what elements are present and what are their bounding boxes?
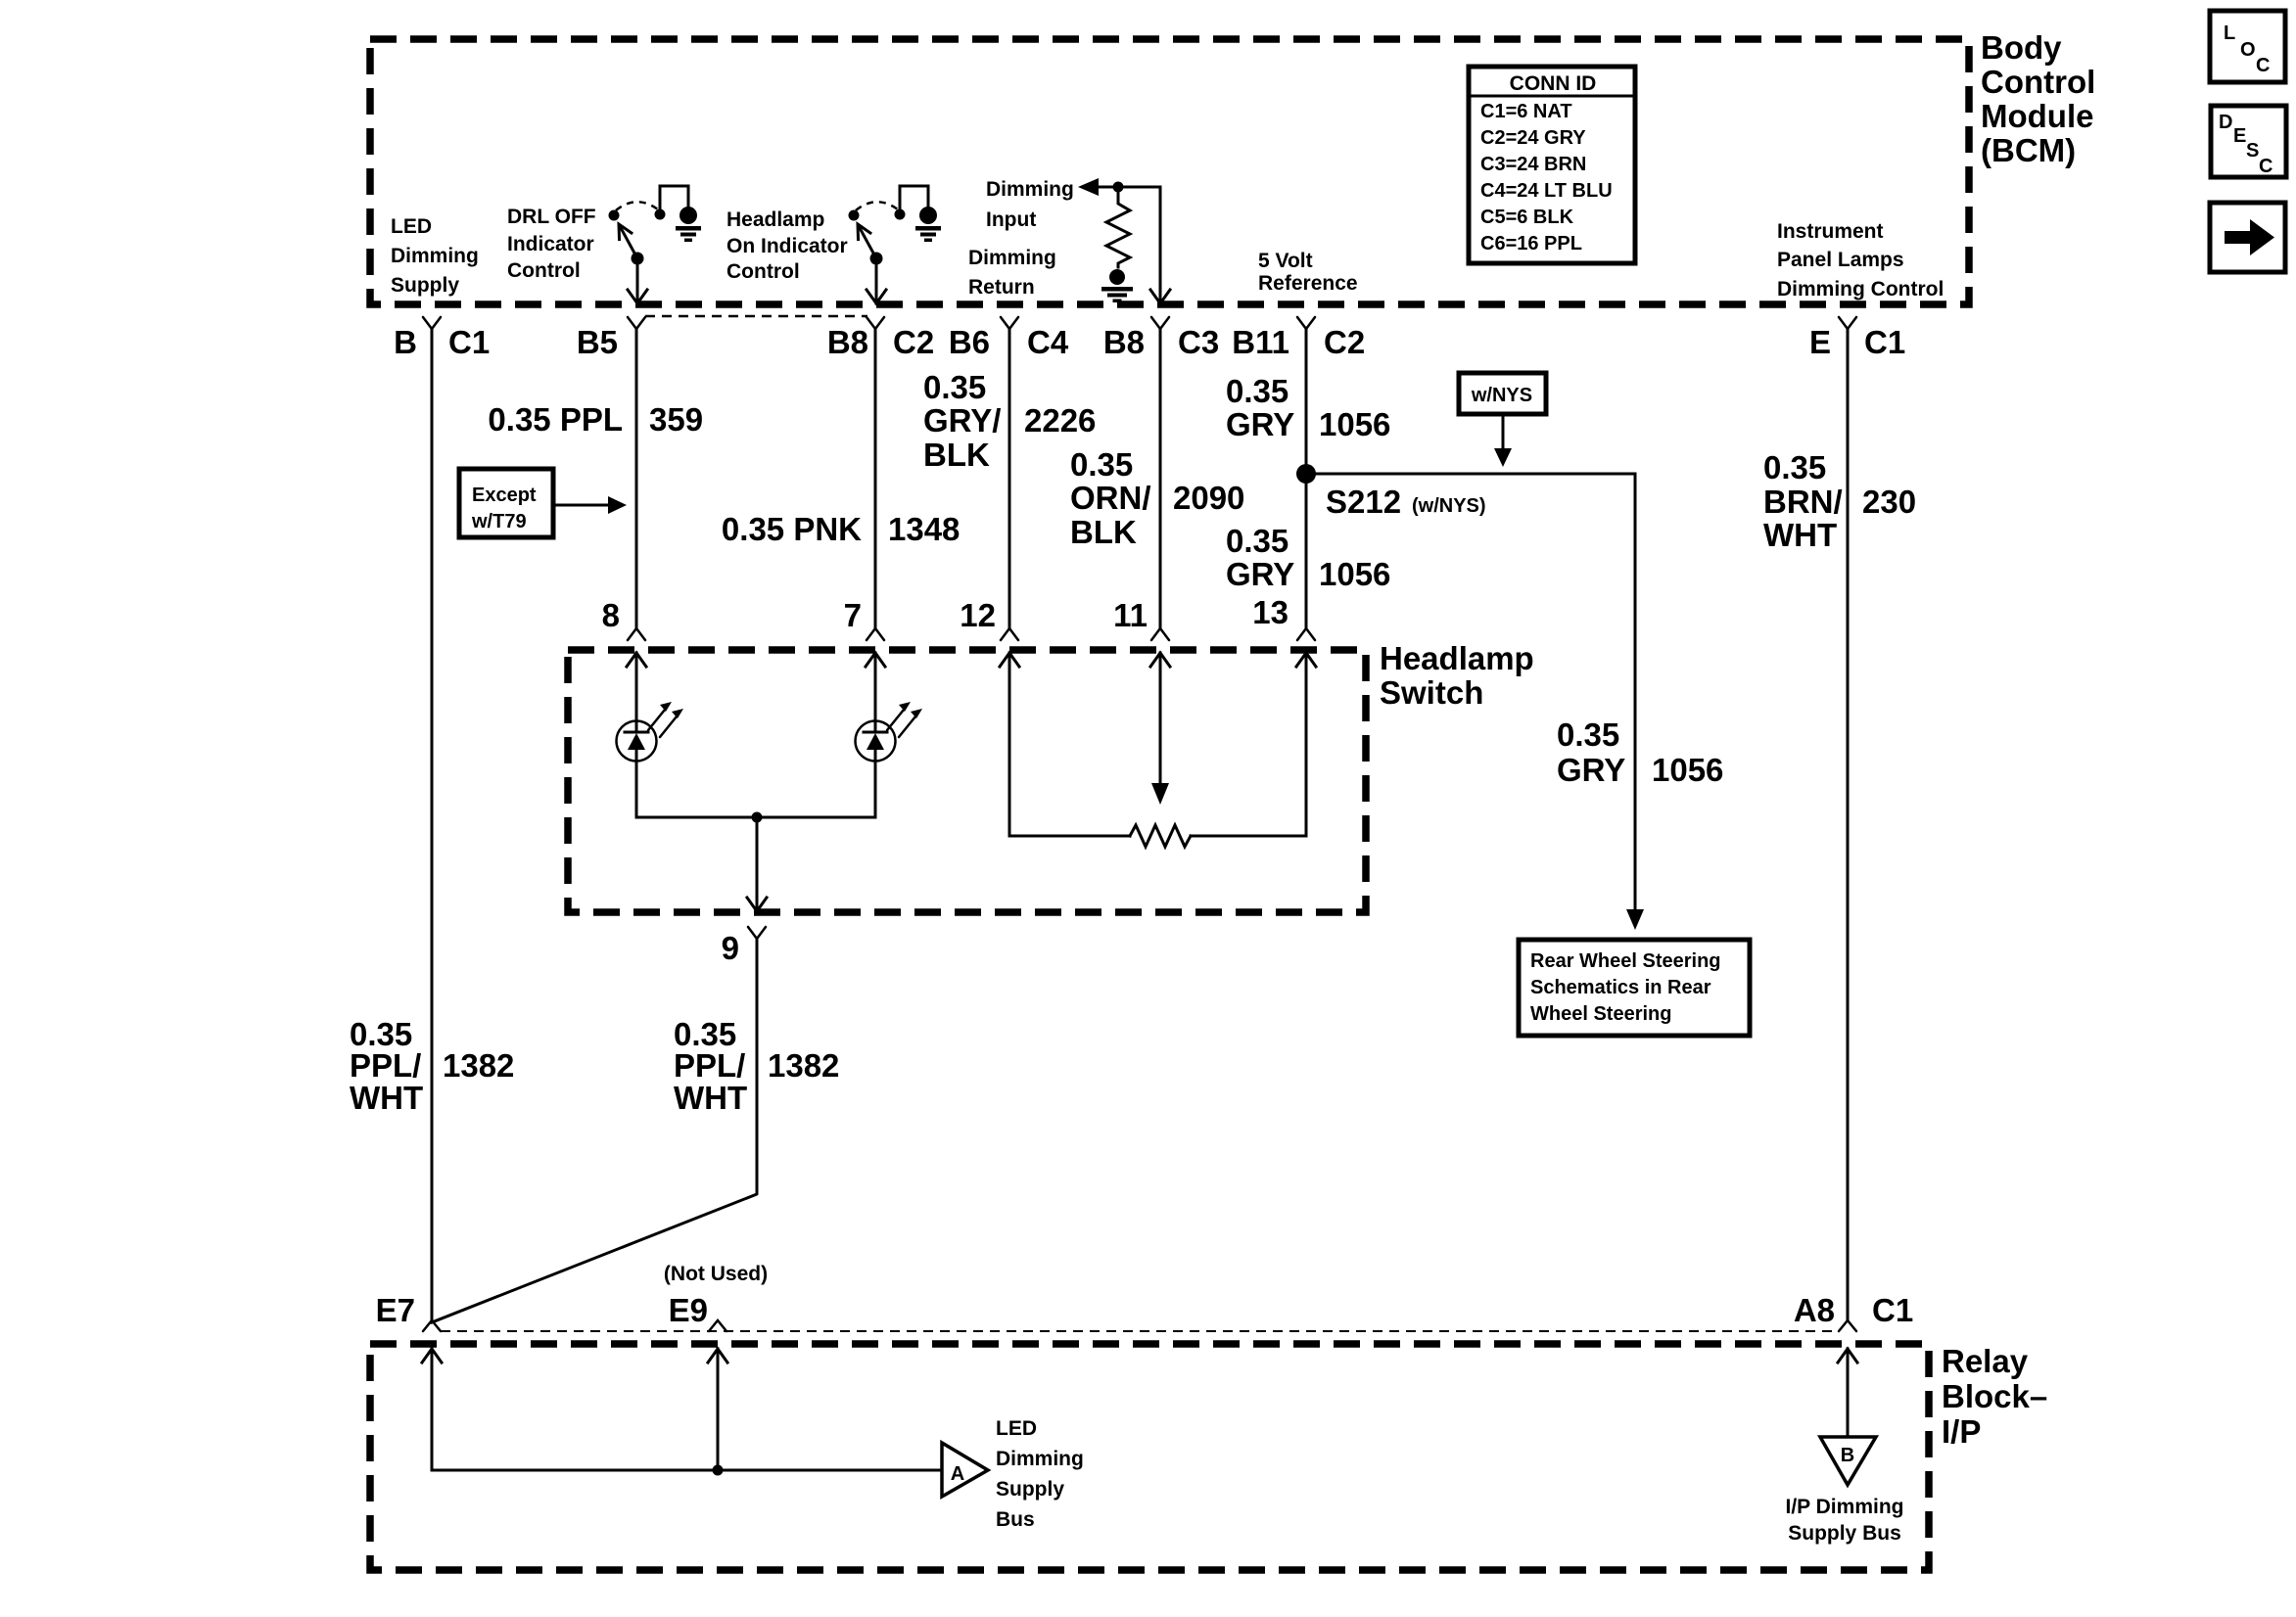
svg-text:B6: B6 (949, 324, 990, 360)
wire E/C1 (instrument panel dimming, 0.35 BRN/WHT 230) (1839, 317, 1856, 329)
wire pin8 to LED1 (635, 653, 638, 721)
svg-text:C1: C1 (448, 324, 490, 360)
svg-text:C3: C3 (1178, 324, 1219, 360)
svg-text:C: C (2259, 156, 2273, 177)
svg-text:A: A (951, 1463, 964, 1485)
wire dimming return drop to BCM edge (1159, 187, 1162, 303)
svg-text:A8: A8 (1794, 1292, 1835, 1328)
bus symbol B (I/P dimming supply bus) (1820, 1437, 1876, 1485)
node S212 splice junction (1296, 464, 1316, 484)
svg-text:C1=6 NAT: C1=6 NAT (1480, 101, 1572, 122)
wire J1 to dimming return drop (1118, 186, 1160, 189)
Rear Wheel Steering reference box (1519, 940, 1750, 1036)
entry arrow at x=894 (866, 653, 885, 667)
svg-text:1382: 1382 (443, 1047, 514, 1084)
svg-text:Control: Control (507, 259, 581, 282)
svg-text:C2: C2 (893, 324, 934, 360)
connector fork pin9 (748, 927, 766, 939)
svg-text:On Indicator: On Indicator (726, 235, 848, 257)
wire B11/C2 pin13 (0.35 GRY 1056) (1297, 317, 1315, 329)
svg-text:0.35: 0.35 (923, 369, 986, 405)
ground G1 (679, 207, 697, 224)
svg-text:BRN/: BRN/ (1763, 484, 1843, 520)
svg-text:13: 13 (1252, 594, 1289, 630)
svg-text:Panel Lamps: Panel Lamps (1777, 249, 1904, 271)
resistor R1 (dimming input) (1106, 187, 1130, 267)
Except w/T79 arrow (555, 504, 609, 507)
svg-text:230: 230 (1862, 484, 1916, 520)
ground G3 (1109, 269, 1125, 285)
svg-text:Relay: Relay (1942, 1343, 2029, 1379)
svg-text:Dimming: Dimming (968, 247, 1056, 269)
LED1 emission arrows (648, 710, 665, 730)
svg-text:B: B (1841, 1445, 1854, 1466)
svg-text:GRY: GRY (1557, 752, 1625, 788)
svg-text:0.35: 0.35 (1226, 523, 1289, 559)
switch SW1 (DRL OFF indicator control) (609, 210, 620, 221)
w/NYS callout box (1459, 373, 1546, 414)
svg-text:11: 11 (1113, 597, 1148, 633)
svg-text:GRY: GRY (1226, 556, 1294, 592)
svg-text:Dimming: Dimming (996, 1448, 1084, 1470)
svg-text:CONN ID: CONN ID (1510, 72, 1597, 95)
svg-text:2226: 2226 (1024, 402, 1096, 439)
connector fork E7 (423, 1320, 441, 1331)
node J1 (dimming input junction) (1113, 182, 1124, 193)
switch SW2 (Headlamp On indicator control) (849, 210, 860, 221)
svg-text:E: E (2233, 125, 2246, 147)
bracket SW1 contact to ground (660, 186, 688, 214)
LED2 emission arrows (887, 710, 904, 730)
svg-text:1382: 1382 (768, 1047, 839, 1084)
wire LED common rail (636, 816, 875, 819)
svg-text:C5=6 BLK: C5=6 BLK (1480, 207, 1574, 228)
svg-text:D: D (2219, 112, 2232, 133)
svg-text:Control: Control (726, 260, 800, 283)
wire potentiometer right end to pin13 (1191, 835, 1306, 838)
wire B5 pin8 (0.35 PPL 359) (628, 317, 645, 329)
svg-text:Module: Module (1981, 98, 2093, 134)
bracket SW2 contact to ground (900, 186, 928, 214)
svg-text:C: C (2256, 55, 2270, 76)
svg-text:C6=16 PPL: C6=16 PPL (1480, 233, 1582, 254)
wire E9 into relay block (708, 1349, 727, 1363)
svg-text:0.35: 0.35 (1070, 446, 1133, 483)
svg-text:2090: 2090 (1173, 480, 1244, 516)
svg-text:1056: 1056 (1319, 556, 1390, 592)
svg-text:PPL/: PPL/ (674, 1047, 745, 1084)
entry arrow at x=1031 (1000, 653, 1019, 667)
svg-text:C2=24 GRY: C2=24 GRY (1480, 127, 1586, 149)
svg-text:C3=24 BRN: C3=24 BRN (1480, 154, 1586, 175)
svg-text:Supply: Supply (996, 1478, 1064, 1501)
svg-text:B8: B8 (1103, 324, 1145, 360)
svg-text:B8: B8 (827, 324, 868, 360)
wire A8 into relay block (1838, 1349, 1857, 1363)
dimming input arrow (points left) (1098, 186, 1118, 189)
wire S212 branch to rear wheel steering (1306, 474, 1635, 910)
svg-text:C1: C1 (1872, 1292, 1913, 1328)
node J2 (LED rail junction) (752, 812, 763, 823)
svg-text:B: B (394, 324, 417, 360)
svg-text:(Not Used): (Not Used) (664, 1263, 768, 1285)
svg-text:1056: 1056 (1319, 406, 1390, 442)
svg-text:1056: 1056 (1652, 752, 1723, 788)
LOC legend box (2210, 11, 2285, 82)
svg-text:0.35 PNK: 0.35 PNK (722, 511, 862, 547)
ground G2 (919, 207, 937, 224)
svg-text:PPL/: PPL/ (350, 1047, 421, 1084)
svg-text:Body: Body (1981, 29, 2062, 66)
wire pin9 to E7 diagonal (432, 939, 757, 1322)
wiper arrow (pin11) (1159, 653, 1162, 784)
svg-text:Schematics in Rear: Schematics in Rear (1530, 977, 1711, 998)
entry arrow at x=650 (627, 653, 646, 667)
svg-text:(BCM): (BCM) (1981, 132, 2076, 168)
svg-text:O: O (2240, 39, 2256, 61)
w/NYS arrow (1502, 414, 1505, 449)
svg-text:S212: S212 (1326, 484, 1401, 520)
wire B6/C2 pin12 (0.35 GRY/BLK 2226) (1001, 317, 1018, 329)
wire B8 pin7 (0.35 PNK 1348) (867, 317, 884, 329)
Relay Block I/P dashed enclosure (370, 1344, 1929, 1570)
svg-text:LED: LED (996, 1417, 1037, 1440)
svg-text:0.35: 0.35 (1226, 373, 1289, 409)
svg-text:Dimming: Dimming (986, 178, 1074, 201)
svg-text:9: 9 (722, 930, 739, 966)
svg-text:WHT: WHT (1763, 517, 1837, 553)
svg-text:I/P: I/P (1942, 1413, 1981, 1450)
svg-text:I/P Dimming: I/P Dimming (1786, 1496, 1904, 1518)
wire pin7 to LED2 (874, 653, 877, 721)
svg-text:12: 12 (960, 597, 996, 633)
svg-text:E9: E9 (669, 1292, 708, 1328)
svg-text:359: 359 (649, 401, 703, 438)
svg-text:Indicator: Indicator (507, 233, 594, 255)
svg-text:E7: E7 (376, 1292, 415, 1328)
svg-text:7: 7 (844, 597, 862, 633)
svg-text:BLK: BLK (1070, 514, 1137, 550)
svg-text:Block–: Block– (1942, 1378, 2047, 1414)
thin dashed connector row line (441, 1330, 1839, 1332)
svg-text:Bus: Bus (996, 1508, 1035, 1531)
svg-text:GRY/: GRY/ (923, 402, 1001, 439)
svg-text:Wheel Steering: Wheel Steering (1530, 1003, 1671, 1025)
svg-text:Dimming: Dimming (391, 245, 479, 267)
svg-text:ORN/: ORN/ (1070, 480, 1151, 516)
wire J2 to pin9 (756, 817, 759, 911)
entry arrow at x=1334 (1296, 653, 1316, 667)
svg-text:C4=24 LT BLU: C4=24 LT BLU (1480, 180, 1613, 202)
wire E7 into relay block (422, 1349, 442, 1363)
svg-text:C4: C4 (1027, 324, 1069, 360)
svg-text:Input: Input (986, 208, 1036, 231)
svg-text:0.35: 0.35 (1557, 716, 1619, 753)
svg-text:Return: Return (968, 276, 1035, 299)
svg-text:Control: Control (1981, 64, 2095, 100)
wire pin12 to potentiometer left end (1009, 653, 1130, 836)
svg-text:Headlamp: Headlamp (726, 208, 824, 231)
svg-text:(w/NYS): (w/NYS) (1412, 495, 1486, 517)
svg-text:w/NYS: w/NYS (1471, 385, 1532, 406)
svg-text:C2: C2 (1324, 324, 1365, 360)
wire pin13 drop (1305, 653, 1308, 836)
svg-text:WHT: WHT (350, 1080, 423, 1116)
svg-text:8: 8 (602, 597, 620, 633)
svg-text:E: E (1809, 324, 1831, 360)
svg-text:0.35 PPL: 0.35 PPL (488, 401, 623, 438)
LED1 (DRL OFF indicator) (617, 721, 657, 762)
svg-text:WHT: WHT (674, 1080, 747, 1116)
svg-text:L: L (2224, 23, 2235, 44)
wire SW1 pivot to BCM edge (636, 258, 639, 303)
svg-text:Reference: Reference (1258, 272, 1358, 295)
wire LED2 to junction rail (874, 761, 877, 817)
svg-text:w/T79: w/T79 (471, 511, 527, 532)
node J3 (bus junction) (713, 1465, 724, 1476)
forward arrow legend box (2210, 203, 2285, 272)
svg-text:LED: LED (391, 215, 432, 238)
svg-text:S: S (2246, 140, 2259, 162)
Except w/T79 callout box (459, 469, 553, 537)
connector fork E9 (709, 1320, 726, 1331)
bus symbol A (LED dimming supply bus) (942, 1443, 988, 1497)
connector fork A8 (1839, 1320, 1856, 1331)
Body Control Module (BCM) dashed enclosure (370, 39, 1969, 304)
svg-text:GRY: GRY (1226, 406, 1294, 442)
Headlamp Switch dashed enclosure (568, 650, 1366, 912)
svg-text:Rear Wheel Steering: Rear Wheel Steering (1530, 950, 1721, 972)
svg-text:Dimming Control: Dimming Control (1777, 278, 1944, 300)
svg-text:Switch: Switch (1380, 674, 1483, 711)
LED2 (Headlamp On indicator) (856, 721, 896, 762)
svg-text:Instrument: Instrument (1777, 220, 1884, 243)
wire SW2 pivot to BCM edge (875, 258, 878, 303)
svg-text:1348: 1348 (888, 511, 960, 547)
svg-text:B11: B11 (1232, 324, 1289, 360)
entry arrow at x=1185 (1150, 653, 1170, 667)
DESC legend box (2211, 106, 2286, 177)
potentiometer R2 (panel dimming) (1130, 825, 1191, 847)
svg-text:0.35: 0.35 (1763, 449, 1826, 485)
CONN ID table (1469, 67, 1635, 263)
svg-text:Except: Except (472, 485, 537, 506)
svg-text:C1: C1 (1864, 324, 1905, 360)
wire LED1 to junction rail (635, 761, 638, 817)
svg-text:B5: B5 (577, 324, 618, 360)
wire B/C1 (LED dimming supply, 0.35 PPL/WHT 1382) (423, 317, 441, 329)
svg-text:5 Volt: 5 Volt (1258, 250, 1313, 272)
thin dashed connector tie B5-B8 (645, 315, 867, 318)
svg-text:Supply: Supply (391, 274, 459, 297)
svg-text:DRL OFF: DRL OFF (507, 206, 596, 228)
wire B8/C3 pin11 (0.35 ORN/BLK 2090) (1151, 317, 1169, 329)
svg-text:Headlamp: Headlamp (1380, 640, 1534, 676)
svg-text:Supply Bus: Supply Bus (1788, 1522, 1901, 1545)
svg-text:BLK: BLK (923, 437, 990, 473)
